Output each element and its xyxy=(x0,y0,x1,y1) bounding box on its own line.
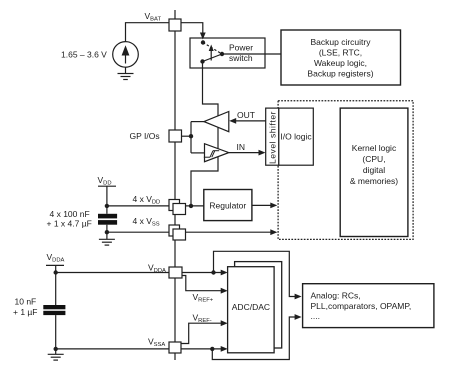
svg-text:& memories): & memories) xyxy=(350,176,398,186)
ground VSS xyxy=(99,232,115,245)
node VSSA cap junction xyxy=(54,347,58,351)
wire VDDA xyxy=(56,272,222,274)
wire VDD feed (switch bottom through buffers to VDD pin dot) xyxy=(191,62,218,206)
svg-text:Regulator: Regulator xyxy=(209,201,246,211)
level shifter box xyxy=(266,108,279,165)
svg-text:ADC/DAC: ADC/DAC xyxy=(232,302,270,312)
kernel logic box xyxy=(340,108,408,236)
voltage source V1 1.65-3.6V xyxy=(113,42,139,68)
analog peripherals box xyxy=(303,284,434,328)
wire VREF+ xyxy=(182,276,222,291)
svg-text:+ 1 x 4.7 µF: + 1 x 4.7 µF xyxy=(47,219,92,229)
pin VSSA xyxy=(169,342,181,353)
supply VDD symbol xyxy=(98,186,116,206)
supply VDDA symbol xyxy=(46,265,64,272)
svg-text:Kernel logic: Kernel logic xyxy=(352,143,397,153)
svg-text:GP I/Os: GP I/Os xyxy=(130,131,160,141)
wire VBAT net (source top to pin, pin to switch drop) xyxy=(126,23,203,42)
wire IN from buffer to level shifter xyxy=(229,152,260,154)
svg-text:Backup circuitry: Backup circuitry xyxy=(311,37,372,47)
node VDDA cap junction xyxy=(54,270,58,274)
I/O logic box xyxy=(279,108,314,165)
wire 4xVDD xyxy=(107,205,204,207)
wire regulator to kernel xyxy=(252,204,271,206)
svg-text:....: .... xyxy=(311,311,320,321)
svg-text:Level shifter: Level shifter xyxy=(268,111,278,164)
schmitt hysteresis glyph xyxy=(204,151,219,158)
op-amp output buffer (OUT driver) xyxy=(204,112,229,132)
arrowhead into power switch top xyxy=(200,33,206,40)
node VDD cap junction xyxy=(105,204,109,208)
regulator box xyxy=(204,190,252,221)
wire GPIO node verticals xyxy=(182,122,205,153)
svg-text:(LSE, RTC,: (LSE, RTC, xyxy=(319,47,362,57)
capacitor C1 (4x100nF + 1x4.7uF) xyxy=(98,206,117,232)
svg-text:Wakeup logic,: Wakeup logic, xyxy=(314,58,367,68)
svg-text:OUT: OUT xyxy=(237,110,255,120)
op-amp input buffer (IN schmitt) xyxy=(205,144,229,162)
pin 4xVSS (double) xyxy=(169,225,186,240)
wire VREF- xyxy=(181,323,222,343)
wire 4xVSS xyxy=(107,231,271,233)
ground VSSA xyxy=(48,349,64,360)
svg-text:Power: Power xyxy=(229,43,253,53)
ground under source xyxy=(118,67,134,79)
svg-text:4 x 100 nF: 4 x 100 nF xyxy=(50,209,90,219)
svg-text:+ 1 µF: + 1 µF xyxy=(13,307,38,317)
svg-text:digital: digital xyxy=(363,165,385,175)
pin VBAT xyxy=(169,19,181,31)
node VSS cap junction xyxy=(105,230,109,234)
svg-text:Backup registers): Backup registers) xyxy=(307,68,373,78)
svg-text:IN: IN xyxy=(237,142,246,152)
node GPIO junction xyxy=(189,134,193,138)
svg-text:Analog: RCs,: Analog: RCs, xyxy=(311,291,361,301)
kernel dashed box xyxy=(278,101,413,240)
wire OUT from level shifter to buffer xyxy=(235,120,266,122)
node VSSA adc junction xyxy=(210,347,214,351)
main pin rail xyxy=(174,10,176,360)
node VDDA adc junction xyxy=(211,270,215,274)
backup circuitry box xyxy=(281,30,401,85)
svg-text:I/O logic: I/O logic xyxy=(280,132,312,142)
svg-text:(CPU,: (CPU, xyxy=(362,154,385,164)
svg-text:1.65 – 3.6 V: 1.65 – 3.6 V xyxy=(61,49,107,59)
pin VDDA xyxy=(169,267,182,278)
switch interior: contacts and blade xyxy=(200,40,224,63)
node VDD pin junction xyxy=(189,204,193,208)
pin 4xVDD (double) xyxy=(169,200,186,215)
wire analog top loop xyxy=(214,251,296,296)
capacitor C2 (10nF + 1uF) xyxy=(43,273,65,349)
power switch box xyxy=(190,38,265,68)
pin GP I/Os xyxy=(169,130,182,142)
ADC/DAC stack xyxy=(228,262,282,353)
svg-text:10 nF: 10 nF xyxy=(15,297,37,307)
wire analog bottom loop xyxy=(212,317,295,360)
wire power switch to backup box xyxy=(222,53,281,55)
wire VSSA xyxy=(56,348,222,350)
svg-text:PLL,comparators, OPAMP,: PLL,comparators, OPAMP, xyxy=(311,301,412,311)
